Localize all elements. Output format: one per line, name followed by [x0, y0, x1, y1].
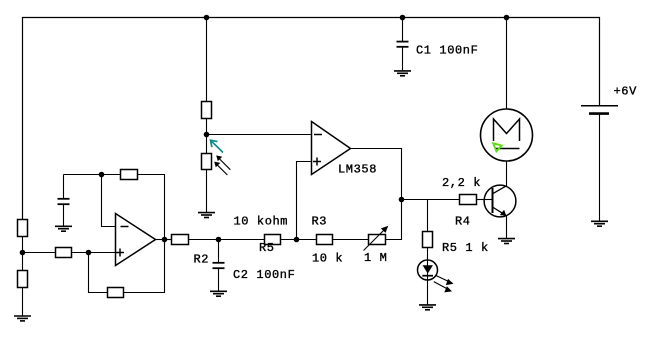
motor M1	[481, 109, 533, 161]
wire C1 branch	[402, 18, 404, 42]
resistor (LDR top, divider)	[202, 102, 212, 119]
svg-text:10 k: 10 k	[312, 251, 343, 265]
wire minus input op-amp U2	[102, 175, 116, 227]
wire R5 branch	[427, 200, 429, 232]
node dot output junction	[399, 197, 405, 203]
transistor Q1	[484, 185, 516, 217]
wire motor branch	[506, 18, 508, 110]
svg-text:C2 100nF: C2 100nF	[233, 268, 295, 282]
wire resistor to LDR	[206, 119, 208, 154]
svg-text:R5 1 k: R5 1 k	[442, 241, 489, 255]
ground (C1)	[394, 71, 411, 76]
wire divider node to R1	[23, 252, 56, 254]
LED light arrow 2	[434, 282, 448, 290]
ground (LED)	[419, 305, 436, 310]
node dot op-amp2 output	[162, 237, 168, 243]
wire minus input op-amp U1	[207, 134, 312, 136]
ground (left divider)	[14, 316, 31, 321]
wire motor to transistor collector	[506, 161, 508, 186]
wire bottom feedback right	[124, 240, 165, 293]
wire LDR to ground	[206, 170, 208, 213]
wire top rail	[23, 18, 600, 220]
svg-text:R2: R2	[194, 253, 210, 267]
ground (battery)	[591, 221, 608, 226]
op-amp U1 LM358	[312, 122, 351, 175]
node dot top rail motor	[504, 15, 510, 21]
LDR light arrow 2	[218, 165, 228, 175]
wire bottom feedback	[89, 253, 108, 293]
resistor (divider lower, left rail)	[18, 271, 28, 288]
svg-text:R3: R3	[312, 214, 328, 228]
ground (op-amp2 capacitor)	[55, 226, 72, 231]
resistor R5 1k	[423, 232, 433, 248]
capacitor C2	[218, 240, 220, 263]
wire left rail mid	[22, 237, 24, 271]
resistor R4 2,2k	[460, 195, 477, 205]
node dot top rail LDR	[204, 15, 210, 21]
svg-text:R5: R5	[259, 241, 275, 255]
LDR light arrow 1	[220, 159, 231, 170]
node dot plus input	[86, 250, 92, 256]
resistor R2	[172, 235, 189, 245]
wire emitter to ground	[506, 216, 508, 238]
wire R3 to pot	[333, 239, 369, 241]
svg-text:R4: R4	[455, 215, 471, 229]
ground (transistor emitter)	[498, 239, 515, 244]
resistor (top feedback)	[121, 170, 138, 180]
wire plus input op-amp U1	[297, 162, 312, 240]
svg-text:C1 100nF: C1 100nF	[416, 44, 478, 58]
node dot C2	[216, 237, 222, 243]
LED light arrow 1	[436, 276, 450, 283]
resistor R3	[317, 235, 333, 245]
capacitor C1	[397, 41, 409, 43]
probe marker (green) at motor	[493, 143, 501, 151]
wire output junction to R4	[402, 199, 460, 201]
resistor R1 (input)	[56, 248, 72, 258]
resistor (divider upper, left rail)	[18, 220, 28, 237]
svg-text:LM358: LM358	[338, 162, 377, 176]
wire top feedback	[64, 174, 121, 176]
wire pot to output node	[351, 149, 402, 240]
wire LDR branch vertical	[206, 18, 208, 102]
resistor R5 10 kohm	[265, 235, 281, 245]
LDR photoresistor	[202, 154, 212, 170]
LED D1	[418, 260, 438, 280]
wire battery to ground	[599, 114, 601, 221]
node dot plus branch op-amp1	[294, 237, 300, 243]
probe arrow (teal) at LDR node	[211, 140, 224, 152]
node dot top rail C1	[400, 15, 406, 21]
ground (C2)	[210, 291, 227, 296]
node dot divider	[20, 250, 26, 256]
wire R1 to plus node	[72, 252, 116, 254]
wire 10kohm to R3	[281, 239, 317, 241]
svg-text:1 M: 1 M	[364, 251, 387, 265]
capacitor (op-amp2 filter)	[63, 175, 65, 199]
resistor (bottom feedback)	[108, 288, 124, 298]
ground (LDR)	[198, 213, 215, 218]
svg-text:2,2 k: 2,2 k	[442, 176, 481, 190]
svg-text:+6V: +6V	[614, 85, 638, 99]
op-amp U2	[116, 214, 156, 266]
svg-text:10 kohm: 10 kohm	[234, 214, 289, 228]
wire top feedback right	[138, 175, 165, 240]
wire R4 to base	[477, 199, 493, 201]
wire to left ground	[22, 288, 24, 316]
wire R2 to 10kohm	[189, 239, 265, 241]
node dot feedback top	[99, 172, 105, 178]
wire op-amp2 output	[156, 239, 172, 241]
node dot LDR	[204, 132, 210, 138]
wire R5 to LED	[427, 248, 429, 305]
potentiometer 1M	[369, 235, 386, 245]
battery +6V	[581, 105, 618, 107]
